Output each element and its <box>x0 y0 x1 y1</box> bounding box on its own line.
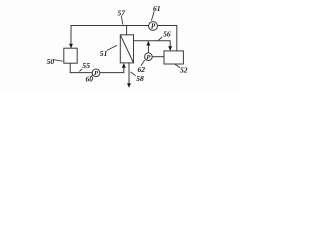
label 60 <box>86 74 94 83</box>
arrow down at concentrate outlet 58 <box>127 83 131 88</box>
membrane module 51 <box>120 35 133 63</box>
tank 52 <box>164 51 183 64</box>
label 52 <box>175 64 188 74</box>
svg-text:52: 52 <box>180 66 188 75</box>
label 61 <box>151 4 160 21</box>
wire permeate line 56 from module 51 to tank 52 <box>134 41 171 51</box>
wire pump 62 stem up to line 56 <box>147 42 149 53</box>
arrow up into module 51 bottom <box>122 63 126 68</box>
arrow up into line 56 from pump 62 <box>146 41 150 46</box>
svg-text:51: 51 <box>100 49 108 58</box>
tank 50 <box>64 48 77 63</box>
arrow into tank 50 top <box>69 44 73 49</box>
svg-text:62: 62 <box>138 65 146 74</box>
svg-text:P: P <box>151 23 156 31</box>
wire branch from top header down into module 51 top <box>126 26 128 35</box>
label 56 <box>158 30 171 41</box>
arrow down into tank 52 top <box>168 46 172 51</box>
wire pump 62 discharge to tank 52 <box>152 56 164 58</box>
wire tank 50 outlet to pump 60 suction line <box>70 63 124 72</box>
svg-text:50: 50 <box>47 57 55 66</box>
label 50 <box>47 57 63 66</box>
pump P 60 <box>92 69 100 77</box>
svg-text:57: 57 <box>118 9 127 18</box>
label 58 <box>130 72 144 83</box>
label 62 <box>138 60 146 74</box>
svg-text:56: 56 <box>163 30 171 39</box>
pump P 62 <box>145 53 153 61</box>
label 57 <box>118 9 127 25</box>
wire concentrate outlet 58 below module 51 <box>128 63 130 84</box>
label 51 <box>100 45 117 58</box>
svg-text:55: 55 <box>82 61 90 70</box>
label 55 <box>79 61 90 71</box>
svg-text:58: 58 <box>136 74 144 83</box>
wire top header from above tank 50 to right downcomer <box>71 26 177 51</box>
pump P 61 <box>149 22 158 31</box>
